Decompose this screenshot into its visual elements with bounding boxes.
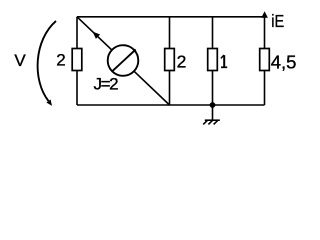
svg-text:J=2: J=2	[94, 75, 119, 94]
svg-text:2: 2	[177, 52, 187, 72]
svg-text:2: 2	[56, 51, 65, 70]
svg-text:4,5: 4,5	[271, 51, 297, 72]
svg-text:iE: iE	[271, 13, 284, 31]
svg-text:V: V	[14, 51, 26, 70]
